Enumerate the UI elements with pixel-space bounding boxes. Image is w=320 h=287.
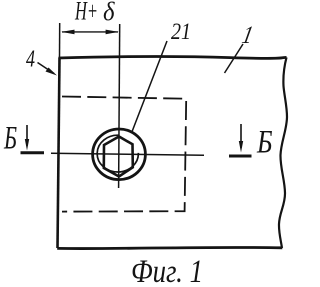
section arrow right <box>229 124 252 156</box>
label 1 <box>240 21 256 49</box>
hexagon socket 21 <box>104 137 133 177</box>
svg-text:Н+: Н+ <box>74 0 98 26</box>
svg-text:Б: Б <box>3 121 17 157</box>
part outline: right break (wavy) edge <box>279 57 287 248</box>
part outline: left edge <box>58 58 60 249</box>
leader line from 1 <box>225 44 244 73</box>
thread arc <box>97 135 138 172</box>
svg-text:Б: Б <box>256 125 272 161</box>
dashed contour of recess <box>62 97 186 212</box>
dimension line H+delta <box>61 30 119 35</box>
extension line above left corner <box>59 23 61 58</box>
vertical centerline <box>119 24 120 188</box>
part outline: top edge <box>59 56 287 58</box>
part outline: bottom edge <box>57 247 282 248</box>
svg-text:Фиг. 1: Фиг. 1 <box>131 254 203 287</box>
svg-text:21: 21 <box>171 19 191 44</box>
section arrow left <box>21 125 45 153</box>
outer circle of hole <box>93 129 146 180</box>
svg-text:4: 4 <box>26 47 35 73</box>
horizontal centerline <box>51 153 204 155</box>
svg-text:δ: δ <box>103 0 115 26</box>
leader line from 21 <box>132 41 168 133</box>
leader arrow from 4 <box>38 63 58 76</box>
